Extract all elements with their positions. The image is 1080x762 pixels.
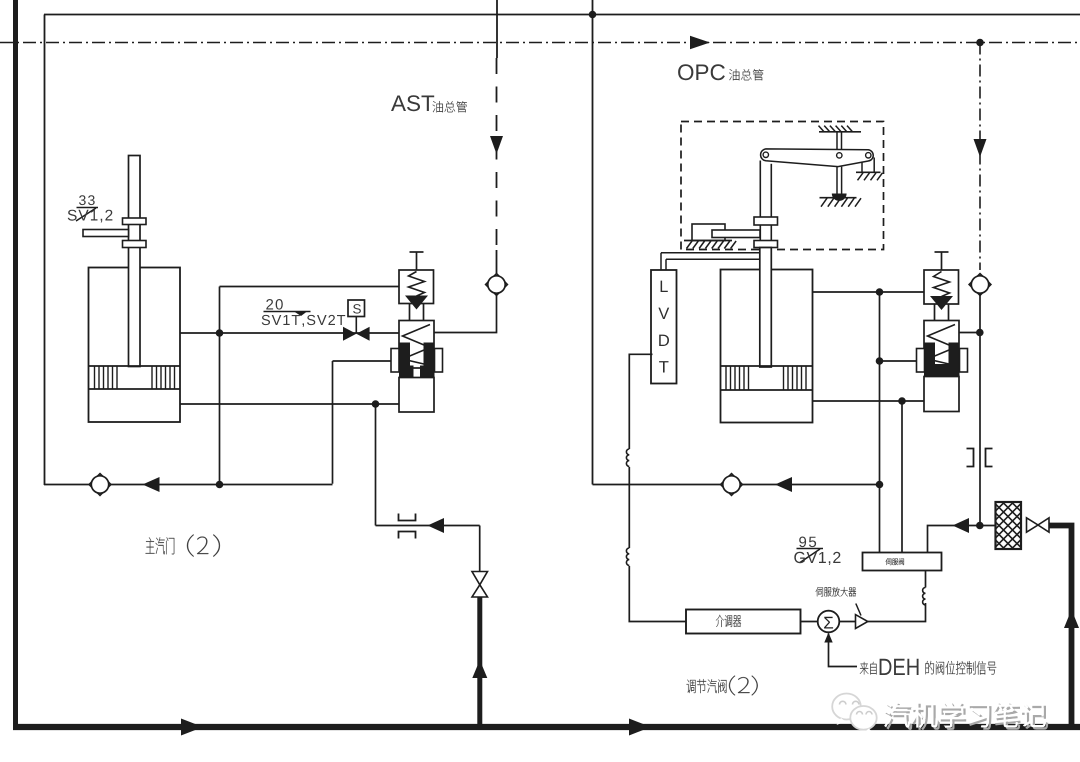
flex hose lower on feedback (626, 548, 629, 565)
arrow up on supply pipe (1064, 610, 1079, 629)
label LVDT letters (661, 281, 668, 292)
watermark logo (832, 694, 877, 735)
wire solenoid stem (355, 317, 357, 334)
wire AST dashed drop line (496, 58, 498, 250)
wire left thick oil-supply trunk (13, 0, 18, 730)
clevis block on stem (692, 224, 725, 241)
check valve on AST drop (486, 274, 508, 296)
cylinder body SV main servo (89, 268, 181, 423)
wire drain drop to shut-off valve (479, 526, 481, 573)
piston rod GV (760, 248, 772, 368)
valve body right pilot (924, 321, 959, 369)
wire GV cylinder upper port (813, 291, 925, 293)
pivot ground line (820, 197, 857, 199)
label 95 with leader (799, 537, 816, 548)
lever beam (761, 149, 874, 167)
solenoid box S (348, 300, 365, 317)
wire dash-dot safety oil header (0, 42, 1080, 44)
arrow left on drain run (428, 518, 445, 533)
wire left boundary line (44, 15, 46, 486)
watermark text (887, 704, 1048, 729)
spring left pilot (409, 272, 425, 297)
label governing valve (Chinese) (687, 679, 727, 693)
drain chamber left pilot (399, 378, 434, 413)
wire GV cylinder lower port (813, 400, 925, 402)
wire SV cylinder lower port (180, 403, 399, 405)
valve body left pilot (399, 321, 434, 369)
node junction side port / riser (876, 357, 884, 365)
neck right pilot (934, 304, 936, 321)
wire left pilot side port (333, 360, 392, 362)
label GV1,2 (794, 552, 840, 565)
label 33 with leader (79, 195, 95, 205)
wire top boundary line (44, 14, 1080, 16)
wire thick supply pipe (1049, 526, 1072, 728)
arrow left on filter line (953, 518, 970, 533)
node junction riser / upper port (216, 329, 224, 337)
label servo amplifier (Chinese) (816, 587, 856, 597)
wire OPC drop below check valve (979, 293, 981, 526)
summing junction (818, 611, 840, 633)
arrow up into summer (824, 633, 832, 643)
node junction lower port / riser (898, 397, 906, 405)
check valve on return line (89, 474, 111, 496)
wire AST header stub at top (496, 0, 498, 58)
pin right on lever (866, 153, 871, 158)
wire return line to left boundary (44, 484, 333, 486)
wire bottom thick oil-supply trunk (13, 724, 1080, 730)
label main stop valve (Chinese) (146, 537, 175, 554)
arrow up on drain down-pipe (472, 660, 487, 678)
cylinder body GV servo (721, 270, 813, 423)
comparator box (686, 610, 801, 634)
label SV1,2 (68, 210, 113, 223)
spring right pilot (934, 272, 950, 297)
label OPC oil header (Chinese) (729, 69, 763, 80)
label valve position control signal (Chinese) (926, 661, 997, 675)
label comparator (Chinese) (716, 615, 741, 627)
servo amplifier triangle (856, 615, 868, 629)
pivot dome (832, 194, 847, 201)
spring 2 left pilot (403, 325, 431, 365)
wire amplifier to servo valve (868, 603, 926, 622)
label from DEH (Chinese) (860, 662, 877, 675)
arrow right on bottom trunk (middle) (629, 719, 651, 736)
wire summer to amplifier (839, 621, 855, 623)
piston of GV cylinder (721, 365, 813, 367)
wire GV lower riser (901, 401, 903, 553)
arrow down on AST drop (490, 136, 503, 154)
wire DEH signal line (829, 634, 858, 667)
flex hose upper on feedback (626, 449, 629, 466)
piston rod SV (129, 156, 141, 367)
label OPC (678, 64, 725, 80)
arrow left on return line (143, 477, 160, 492)
node junction OPC return / GV riser (876, 481, 884, 489)
node junction OPC drop / pilot port (976, 329, 984, 337)
label AST oil header (Chinese) (433, 101, 467, 112)
node junction OPC drop / filter line (976, 522, 984, 530)
arrow right on safety oil header (690, 36, 710, 49)
wire feedback drop continues (628, 467, 630, 548)
link right to anchor (861, 162, 863, 173)
wire comparator to summer (801, 621, 818, 623)
wire right pilot to OPC drop (959, 332, 980, 334)
wire OPC return line (593, 484, 880, 486)
link from top anchor (836, 132, 838, 150)
wire left pilot side port riser (332, 361, 334, 484)
wire from AST check valve to pilot valve (434, 293, 497, 333)
LVDT transducer body (651, 270, 677, 384)
wire LVDT feedback drop (629, 354, 652, 449)
wire LVDT link to stem (661, 252, 762, 254)
OPC overspeed trip mechanism enclosure (681, 122, 884, 250)
neck left pilot (409, 304, 411, 321)
label 20 with leader (266, 299, 283, 310)
side tab left pilot (left) (391, 349, 399, 373)
solenoid test valve SV1T (343, 327, 356, 341)
stem flange upper (754, 217, 778, 225)
pipe union on OPC drop (967, 449, 993, 467)
spring chamber left pilot (399, 270, 434, 304)
adjuster T-bar right pilot (935, 251, 949, 253)
pin left on lever (763, 152, 768, 157)
wire AST drop solid segment (496, 250, 498, 276)
wire into servo valve bottom (925, 571, 927, 588)
wire SV pilot supply riser (219, 287, 221, 485)
wire thick drain down-pipe (477, 597, 482, 727)
spool lands right pilot (924, 343, 935, 377)
drain chamber right pilot (924, 377, 959, 412)
wire drain riser from lower port (375, 404, 377, 526)
arrow down on OPC drop (974, 139, 987, 157)
wire filter line to servo valve (928, 526, 996, 553)
spool lands left pilot (399, 343, 410, 378)
poppet right pilot (930, 296, 953, 310)
wire GV pilot side port (880, 360, 917, 362)
spring chamber right pilot (924, 270, 959, 304)
pipe union on drain run (399, 514, 416, 539)
wire OPC dash-dot drop line (979, 43, 981, 271)
node junction on OPC header (976, 39, 984, 47)
rod flange lower SV (123, 241, 147, 248)
ground anchor right (856, 171, 881, 173)
ground anchor clevis (684, 240, 732, 242)
wire feedback to comparator (629, 566, 686, 622)
label DEH (880, 659, 919, 675)
piston of SV cylinder (89, 365, 181, 367)
node junction on top boundary (589, 11, 597, 19)
node junction upper port / supply riser (876, 288, 884, 296)
ground anchor top (819, 131, 861, 133)
poppet left pilot (405, 296, 428, 310)
wire SV pilot top line (220, 286, 400, 288)
node junction lower port / drain riser (372, 400, 380, 408)
wire drain horizontal run (376, 525, 480, 527)
label SV1T,SV2T (262, 315, 346, 327)
side tab right pilot (right) (960, 349, 968, 373)
wire GV supply riser (879, 292, 881, 553)
label AST (391, 95, 434, 111)
arrow right on bottom trunk (left) (181, 719, 203, 736)
adjuster T-bar left pilot (410, 251, 424, 253)
stem flange lower (754, 241, 778, 248)
check valve on OPC drop (969, 274, 991, 296)
servo valve box (863, 553, 942, 571)
node junction return / pilot riser (216, 481, 224, 489)
flex hose on servo valve line (923, 588, 926, 605)
wire SV cylinder upper port (180, 332, 399, 334)
shut-off valve on drain (472, 572, 488, 585)
valve stem column upper (759, 161, 761, 218)
label servo valve (Chinese) (886, 558, 904, 565)
check valve on OPC return (721, 474, 743, 496)
side tab left pilot (right) (435, 349, 443, 373)
arrow left on OPC return (775, 477, 792, 492)
spring 2 right pilot (928, 325, 956, 365)
rod arm SV (83, 230, 129, 237)
supply shut-off valve (1027, 518, 1039, 532)
link middle to pivot (836, 167, 838, 194)
valve stem column middle (759, 225, 761, 241)
clevis bar to stem (712, 230, 760, 238)
rod flange upper SV (123, 218, 147, 225)
side tab right pilot (left) (917, 349, 925, 373)
pin middle on lever (837, 153, 842, 158)
wire vertical line to OPC loop (592, 0, 594, 485)
